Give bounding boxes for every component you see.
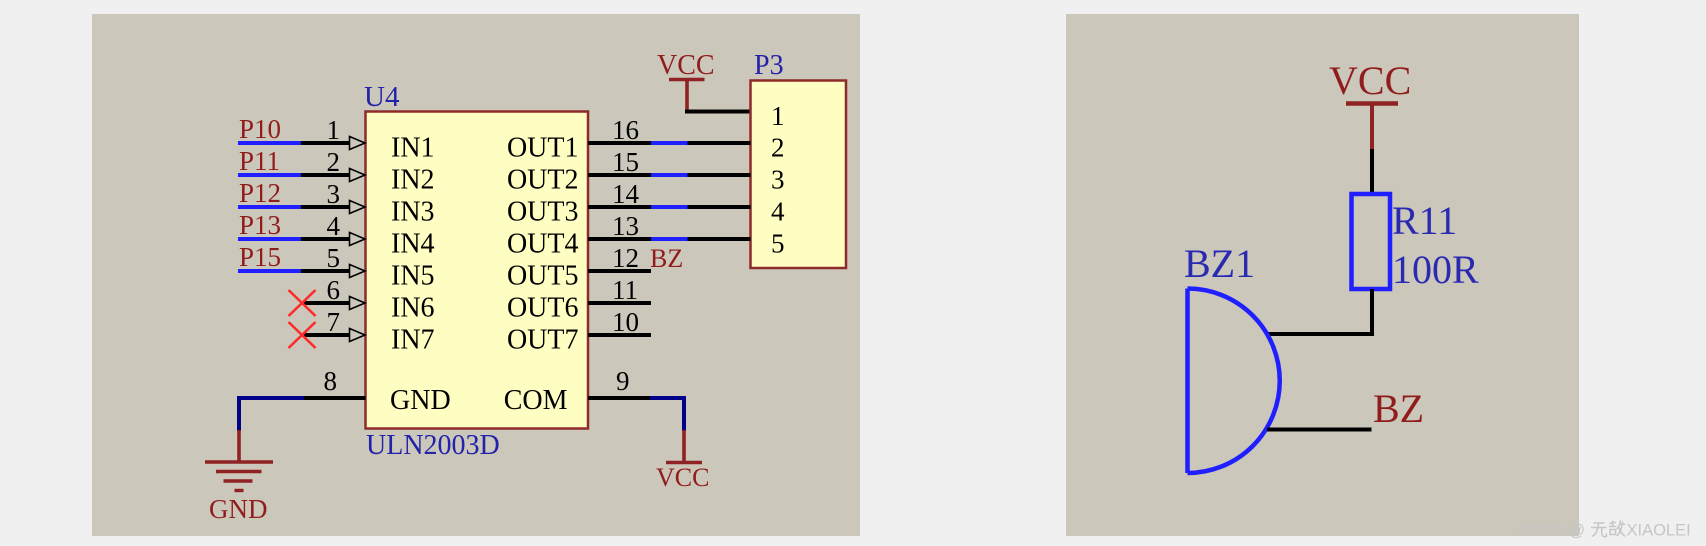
svg-text:9: 9 — [616, 366, 630, 396]
wire P11 blue segment — [238, 173, 301, 177]
svg-text:14: 14 — [612, 179, 640, 209]
svg-text:OUT3: OUT3 — [507, 197, 579, 228]
svg-text:OUT5: OUT5 — [507, 261, 579, 292]
svg-text:16: 16 — [612, 115, 639, 145]
svg-text:U4: U4 — [364, 81, 400, 113]
watermark hanzi di — [1609, 520, 1625, 536]
svg-text:1: 1 — [327, 115, 341, 145]
svg-text:IN3: IN3 — [391, 197, 435, 228]
svg-text:P3: P3 — [754, 50, 784, 81]
watermark hanzi wu — [1591, 523, 1607, 537]
svg-text:IN1: IN1 — [391, 133, 435, 164]
svg-text:P11: P11 — [239, 146, 280, 176]
svg-text:P13: P13 — [239, 210, 281, 240]
svg-text:100R: 100R — [1392, 247, 1479, 292]
wire pin5 black segment — [301, 269, 350, 273]
svg-text:11: 11 — [612, 275, 638, 305]
svg-text:OUT4: OUT4 — [507, 229, 579, 260]
wire pin10 — [588, 333, 651, 337]
pin 4 arrowhead — [350, 233, 366, 246]
power bar VCC right panel — [1346, 101, 1398, 106]
svg-text:OUT2: OUT2 — [507, 165, 579, 196]
wire VCC to P3 pin1 — [685, 110, 751, 114]
wire pin15 black segment b — [688, 173, 751, 177]
svg-text:IN4: IN4 — [391, 229, 435, 260]
svg-text:1: 1 — [771, 101, 785, 131]
wire pin2 black segment — [301, 173, 350, 177]
svg-text:6: 6 — [327, 275, 341, 305]
wire P13 blue segment — [238, 237, 301, 241]
right schematic panel — [1066, 14, 1579, 536]
svg-text:ULN2003D: ULN2003D — [366, 430, 500, 461]
resistor R11 body — [1352, 194, 1391, 289]
wire pin9 navy segment — [650, 398, 684, 431]
svg-text:P10: P10 — [239, 114, 281, 144]
op-amp U4 ULN2003D chip body — [366, 112, 589, 429]
wire pin14 blue segment — [651, 205, 688, 209]
connector P3 body — [751, 81, 847, 269]
buzzer BZ1 body — [1188, 289, 1280, 474]
pin 7 arrowhead — [350, 329, 366, 342]
wire pin13 blue segment — [651, 237, 688, 241]
svg-text:IN6: IN6 — [391, 293, 435, 324]
wire pin3 black segment — [301, 205, 350, 209]
svg-text:7: 7 — [327, 307, 341, 337]
ground symbol — [205, 462, 273, 491]
svg-text:R11: R11 — [1392, 198, 1457, 243]
pin 5 arrowhead — [350, 265, 366, 278]
svg-text:GND: GND — [209, 494, 268, 524]
svg-text:15: 15 — [612, 147, 639, 177]
power bar VCC bottom — [666, 461, 702, 465]
svg-text:BZ: BZ — [650, 244, 683, 273]
svg-text:10: 10 — [612, 307, 639, 337]
wire buzzer lower terminal — [1267, 428, 1372, 432]
pin 3 arrowhead — [350, 201, 366, 214]
svg-text:13: 13 — [612, 211, 639, 241]
svg-text:CSDN @: CSDN @ — [1517, 522, 1585, 540]
svg-text:VCC: VCC — [656, 463, 709, 492]
svg-text:IN2: IN2 — [391, 165, 435, 196]
left schematic panel — [92, 14, 860, 536]
svg-text:2: 2 — [327, 147, 341, 177]
no-connect X pin6 — [289, 290, 316, 316]
wire pin9 black segment — [588, 396, 651, 400]
wire resistor to node — [1267, 289, 1372, 334]
wire pin8 navy segment — [239, 398, 304, 431]
svg-text:BZ1: BZ1 — [1184, 241, 1255, 286]
wire pin16 blue segment — [651, 141, 688, 145]
wire pin16 black segment a — [588, 141, 652, 145]
svg-text:8: 8 — [324, 366, 338, 396]
svg-text:5: 5 — [771, 229, 785, 259]
svg-text:3: 3 — [771, 165, 785, 195]
svg-text:4: 4 — [771, 197, 785, 227]
svg-text:P12: P12 — [239, 178, 281, 208]
svg-text:P15: P15 — [239, 242, 281, 272]
svg-text:4: 4 — [327, 211, 341, 241]
svg-text:5: 5 — [327, 243, 341, 273]
svg-text:BZ: BZ — [1373, 386, 1424, 431]
svg-text:OUT7: OUT7 — [507, 325, 579, 356]
wire pin8 black segment — [303, 396, 366, 400]
VCC stem dark red — [685, 80, 689, 112]
svg-text:IN5: IN5 — [391, 261, 435, 292]
pin 2 arrowhead — [350, 169, 366, 182]
wire pin4 black segment — [301, 237, 350, 241]
wire pin13 black segment a — [588, 237, 652, 241]
wire to VCC dark red — [682, 430, 686, 461]
svg-text:VCC: VCC — [657, 50, 715, 81]
svg-text:COM: COM — [504, 385, 568, 416]
svg-text:IN7: IN7 — [391, 325, 435, 356]
svg-text:3: 3 — [327, 179, 341, 209]
wire pin14 black segment b — [688, 205, 751, 209]
svg-text:GND: GND — [390, 385, 451, 416]
VCC stem dark red right panel — [1370, 104, 1374, 150]
wire pin6 black segment — [302, 301, 350, 305]
wire pin16 black segment b — [688, 141, 751, 145]
svg-text:OUT6: OUT6 — [507, 293, 579, 324]
svg-text:VCC: VCC — [1329, 58, 1411, 103]
wire pin7 black segment — [302, 333, 350, 337]
wire pin12 — [588, 269, 651, 273]
wire P15 blue segment — [238, 269, 301, 273]
svg-text:2: 2 — [771, 133, 785, 163]
no-connect X pin7 — [289, 322, 316, 348]
wire to ground dark red — [237, 430, 241, 462]
wire P10 blue segment — [238, 141, 301, 145]
wire pin14 black segment a — [588, 205, 652, 209]
svg-text:12: 12 — [612, 243, 639, 273]
wire pin1 black segment — [301, 141, 350, 145]
pin 6 arrowhead — [350, 297, 366, 310]
svg-text:XIAOLEI: XIAOLEI — [1627, 522, 1691, 540]
wire pin11 — [588, 301, 651, 305]
wire pin15 black segment a — [588, 173, 652, 177]
wire pin15 blue segment — [651, 173, 688, 177]
power bar VCC top — [669, 78, 705, 82]
svg-text:OUT1: OUT1 — [507, 133, 579, 164]
pin 1 arrowhead — [350, 137, 366, 150]
wire VCC to resistor — [1370, 149, 1374, 194]
wire P12 blue segment — [238, 205, 301, 209]
wire pin13 black segment b — [688, 237, 751, 241]
